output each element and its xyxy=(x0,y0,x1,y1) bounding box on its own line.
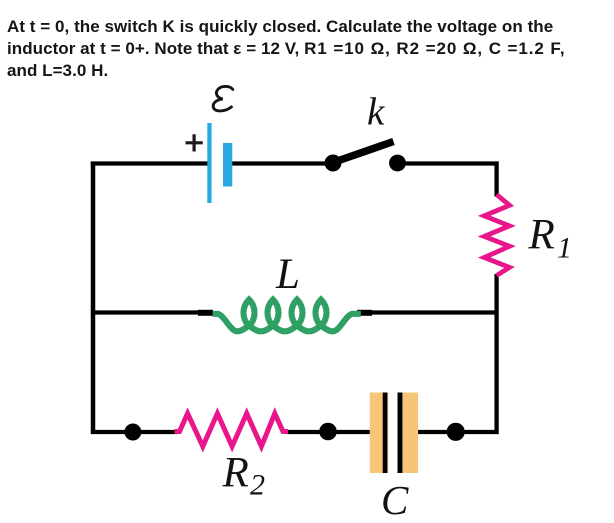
switch k left contact dot xyxy=(325,155,342,172)
wire: left vertical xyxy=(91,162,96,435)
label R2 xyxy=(222,450,266,502)
junction dot: capacitor-right wire node xyxy=(447,423,465,441)
wire: top middle segment (battery to switch) xyxy=(231,161,334,165)
resistor R2 (horizontal zigzag) xyxy=(175,413,289,446)
wire: inductor right lead nub xyxy=(357,310,372,316)
wire: top left segment (to battery) xyxy=(91,161,209,165)
switch k right contact dot xyxy=(389,155,406,172)
wire: middle left segment (to inductor) xyxy=(91,310,198,314)
label R1 xyxy=(528,212,573,265)
svg-text:R: R xyxy=(528,212,555,259)
capacitor C right plate (black) xyxy=(398,393,403,474)
capacitor C left plate (black) xyxy=(383,393,388,474)
wire: bottom left segment xyxy=(91,430,177,434)
wire: top right segment + right vertical upper (switch to R1) xyxy=(397,164,497,197)
wire: inductor left lead nub xyxy=(198,310,213,316)
svg-text:C: C xyxy=(381,477,409,523)
battery E positive plate (long blue) xyxy=(207,123,211,203)
junction dot: R2-capacitor node xyxy=(319,423,337,441)
wire: bottom right segment (capacitor to junction) xyxy=(398,430,456,434)
capacitor C left highlight bar (orange) xyxy=(370,393,388,474)
battery E negative plate (short blue) xyxy=(223,143,232,187)
junction dot: bottom left node xyxy=(124,424,141,441)
svg-text:2: 2 xyxy=(250,469,265,502)
battery plus sign xyxy=(186,134,203,151)
switch k blade xyxy=(333,142,394,163)
svg-text:R: R xyxy=(222,450,249,497)
svg-text:1: 1 xyxy=(557,232,572,265)
svg-text:L: L xyxy=(275,251,300,298)
resistor R1 (vertical zigzag) xyxy=(484,195,509,276)
svg-text:k: k xyxy=(367,91,385,134)
wire: middle right segment (inductor to right wire) xyxy=(372,310,498,314)
wire: bottom middle segment (R2 to capacitor) xyxy=(287,430,388,434)
wire: right vertical lower (R1 to bottom corner) xyxy=(455,274,497,432)
battery label E (script epsilon) xyxy=(213,86,233,111)
inductor L (green coil) xyxy=(213,300,361,332)
capacitor C right highlight bar (orange) xyxy=(400,393,418,474)
